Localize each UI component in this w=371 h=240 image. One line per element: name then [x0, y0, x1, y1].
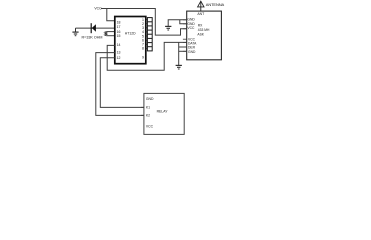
svg-text:ASK: ASK	[197, 32, 204, 36]
wire ground to pin 17	[76, 27, 115, 29]
op IC U1 HT12D body	[115, 17, 146, 64]
svg-text:HT12D: HT12D	[125, 31, 136, 35]
value label R=33K OHM	[82, 35, 103, 39]
connector header ladder A0-A7	[147, 18, 152, 51]
resistor R1 oscillator zigzag	[105, 32, 115, 36]
wire DATA net pin14 to RX DATA	[107, 42, 187, 70]
svg-text:13: 13	[117, 51, 121, 55]
node VCC label	[94, 7, 102, 11]
ground module lower	[176, 65, 182, 69]
svg-text:8: 8	[142, 47, 144, 51]
label ANTENNA	[206, 2, 225, 7]
svg-text:GND: GND	[146, 97, 154, 101]
svg-text:R=33K OHM: R=33K OHM	[82, 35, 103, 39]
label ANT	[197, 12, 204, 16]
svg-text:VCC: VCC	[146, 125, 154, 129]
wire VCC to pin 18	[107, 9, 115, 21]
svg-text:K1: K1	[146, 106, 150, 110]
pin labels right 1-9	[142, 18, 144, 60]
pin labels left 18 17 16 15 14 13 12	[117, 20, 121, 60]
antenna symbol	[198, 1, 204, 11]
relay labels	[146, 97, 168, 129]
label HT12D	[125, 31, 136, 35]
wire DER GND to ground	[179, 42, 187, 65]
wire pin13 to relay K2	[96, 53, 144, 116]
svg-text:12: 12	[117, 56, 121, 60]
module pin labels left	[187, 18, 197, 54]
module pin stubs	[183, 20, 187, 52]
pin stubs right to header	[146, 20, 148, 49]
diode D1 (VT indicator)	[91, 23, 96, 33]
relay pin stubs K1 K2	[141, 107, 144, 115]
svg-text:15: 15	[117, 34, 121, 38]
svg-text:ANTENNA: ANTENNA	[206, 2, 225, 7]
svg-text:RX: RX	[198, 23, 203, 27]
wire pin12 to relay K1	[100, 58, 144, 108]
svg-text:9: 9	[142, 56, 144, 60]
relay box	[144, 93, 184, 134]
svg-text:18: 18	[117, 20, 121, 24]
svg-text:14: 14	[117, 43, 121, 47]
svg-text:ANT: ANT	[197, 12, 204, 16]
ground module upper	[165, 26, 171, 30]
svg-text:VCC: VCC	[187, 26, 195, 30]
svg-text:RELAY: RELAY	[157, 109, 169, 113]
svg-text:17: 17	[117, 25, 121, 29]
svg-text:GND: GND	[188, 50, 196, 54]
svg-text:K2: K2	[146, 113, 150, 117]
wire VCC rail top	[101, 9, 187, 36]
ground left (LED cathode)	[72, 28, 78, 36]
wire module GND pins to ground	[168, 20, 187, 26]
module RX433 body	[187, 11, 222, 60]
label RX 433 MH ASK	[197, 23, 210, 36]
